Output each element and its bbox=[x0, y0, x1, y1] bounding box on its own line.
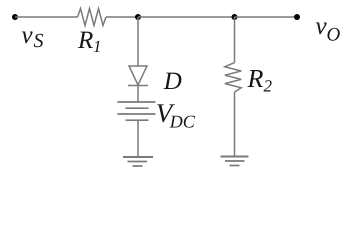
diode D bbox=[128, 66, 148, 86]
wire vS terminal to R1 bbox=[15, 16, 78, 18]
wire node B down to resistor R2 bbox=[234, 17, 236, 63]
battery VDC bbox=[118, 102, 156, 120]
svg-text:DC: DC bbox=[169, 112, 196, 132]
node vS terminal dot bbox=[12, 14, 18, 20]
svg-text:R: R bbox=[77, 27, 93, 54]
svg-text:S: S bbox=[34, 30, 44, 52]
wire resistor R2 to ground bbox=[234, 92, 236, 156]
node vO terminal dot bbox=[294, 14, 300, 20]
label VDC bbox=[156, 98, 196, 132]
resistor R2 bbox=[225, 63, 241, 92]
label R1 bbox=[77, 27, 102, 56]
svg-text:1: 1 bbox=[93, 37, 102, 56]
wire node B to vO terminal bbox=[235, 16, 298, 18]
wire node A down to diode D anode bbox=[137, 17, 139, 66]
label vO bbox=[316, 13, 341, 46]
wire battery VDC to ground bbox=[137, 120, 139, 157]
svg-text:R: R bbox=[247, 64, 264, 93]
resistor R1 bbox=[78, 9, 107, 26]
label vS bbox=[22, 22, 44, 52]
svg-text:D: D bbox=[163, 68, 182, 95]
svg-text:O: O bbox=[327, 25, 341, 46]
wire diode D to battery VDC bbox=[137, 86, 139, 103]
label R2 bbox=[247, 64, 273, 96]
svg-text:2: 2 bbox=[264, 77, 273, 96]
wire R1 to node A bbox=[106, 16, 138, 18]
wire node A to node B bbox=[138, 16, 235, 18]
node B junction dot bbox=[232, 14, 238, 20]
node A junction dot bbox=[135, 14, 141, 20]
ground (right) bbox=[221, 157, 249, 166]
svg-text:v: v bbox=[22, 22, 34, 49]
ground (left) bbox=[123, 157, 153, 166]
